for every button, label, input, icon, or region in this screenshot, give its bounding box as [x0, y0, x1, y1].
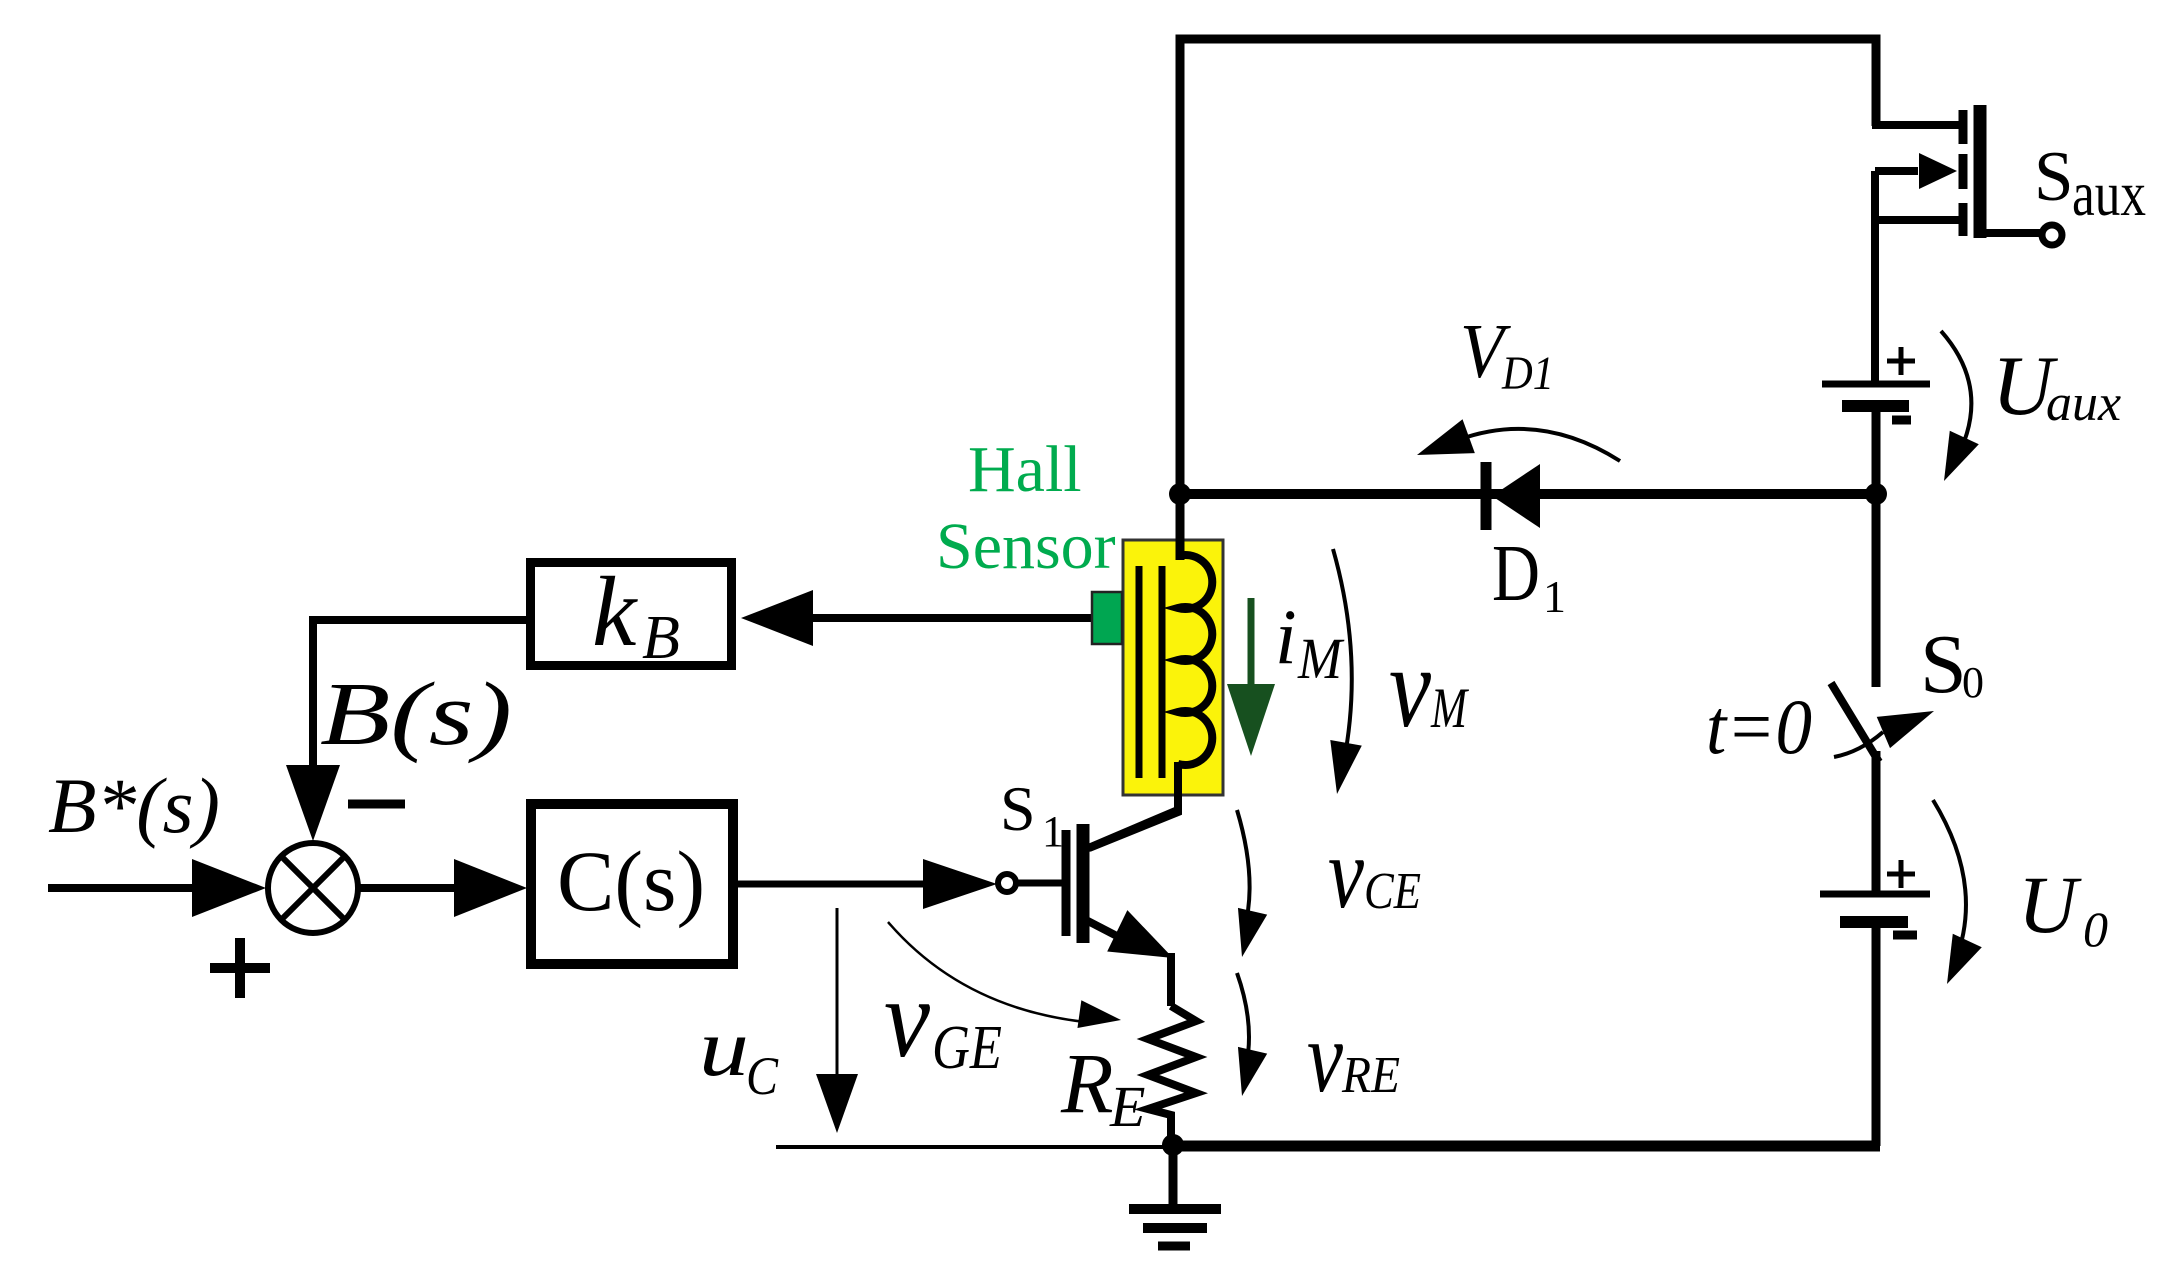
arc: U_aux voltage arrow	[1941, 331, 1971, 465]
wire: S0 lower to U0	[1872, 751, 1881, 894]
svg-text:t=0: t=0	[1706, 683, 1812, 770]
svg-text:1: 1	[1543, 571, 1566, 622]
svg-text:k: k	[592, 556, 638, 667]
ground bar 1	[1129, 1204, 1221, 1214]
svg-text:B(s): B(s)	[320, 665, 512, 764]
battery U_aux top plate	[1822, 381, 1930, 388]
svg-text:v: v	[884, 957, 930, 1081]
arrowhead: into C(s)	[454, 859, 527, 917]
svg-text:S: S	[2034, 138, 2074, 216]
arrowhead: U0 arrow	[1932, 934, 1981, 991]
svg-text:0: 0	[1962, 658, 1984, 707]
Hall sensor probe (green box)	[1092, 592, 1122, 644]
wire: U0 down to bottom rail	[1872, 920, 1881, 1146]
plus sign at summing junction	[210, 938, 270, 998]
wire: emitter to resistor R_E	[1167, 953, 1175, 1006]
wire: diode D1 branch	[1180, 489, 1876, 499]
svg-text:aux: aux	[2046, 375, 2121, 432]
svg-text:1: 1	[1042, 807, 1064, 856]
switch S0 blade	[1831, 683, 1879, 762]
inductor coil loops	[1178, 555, 1212, 765]
wire: U_aux to node	[1872, 410, 1881, 494]
ground bar 3	[1158, 1242, 1190, 1251]
svg-text:E: E	[1109, 1074, 1145, 1139]
svg-text:Hall: Hall	[968, 433, 1082, 506]
battery U0 minus sign	[1893, 931, 1917, 940]
arc: v_M voltage arrow	[1333, 549, 1352, 775]
wire: S_aux gate lead	[1984, 229, 2041, 237]
svg-text:v: v	[1328, 817, 1365, 930]
ground bar 2	[1143, 1223, 1207, 1233]
wire: B*(s) input	[48, 884, 200, 892]
arrowhead: B(s) feedback down into summing junction	[286, 765, 340, 841]
svg-text:C(s): C(s)	[557, 833, 705, 929]
diode D1 triangle	[1492, 464, 1540, 528]
block C(s) box	[531, 804, 733, 964]
wire: S_aux drain branch	[1872, 121, 1964, 129]
arrowhead: S1 emitter arrow	[1107, 910, 1183, 979]
node dot at inductor top	[1169, 483, 1191, 505]
wire: S_aux source branch	[1871, 216, 1964, 224]
transistor S1 gate bar	[1062, 830, 1071, 936]
svg-text:M: M	[1430, 677, 1469, 740]
svg-text:v: v	[1389, 624, 1431, 752]
battery U0 top plate	[1820, 891, 1930, 898]
svg-text:Sensor: Sensor	[936, 510, 1116, 583]
arrowhead: gate drive into S1	[923, 859, 997, 909]
arc: v_GE voltage arrow (thin)	[888, 922, 1085, 1022]
inductor core line 2	[1159, 566, 1166, 778]
resistor R_E zigzag	[1148, 1006, 1196, 1146]
arc: v_CE voltage arrow	[1237, 810, 1250, 930]
svg-text:v: v	[1307, 1001, 1344, 1114]
arrowhead: S_aux body arrow	[1919, 153, 1957, 189]
svg-text:0: 0	[2083, 901, 2108, 957]
ground lead	[1169, 1146, 1178, 1209]
inductor core line 1	[1136, 566, 1143, 778]
svg-text:D1: D1	[1501, 347, 1554, 400]
arrowhead: v_RE arrow	[1227, 1047, 1267, 1100]
wire: summing junction to C(s)	[358, 884, 458, 892]
wire: bottom reference line thin	[776, 1145, 1173, 1149]
node dot at emitter/bottom rail	[1162, 1134, 1184, 1156]
transistor S_aux channel dashes	[1959, 110, 1968, 236]
svg-text:RE: RE	[1341, 1047, 1400, 1104]
arrowhead: v_M arrow	[1321, 740, 1362, 797]
wire: gate circle to gate bar	[1016, 880, 1062, 887]
inductor body (yellow box)	[1123, 540, 1223, 795]
arrowhead: i_M current arrow (dark green)	[1227, 684, 1275, 756]
wire: Hall sensor output	[812, 614, 1092, 622]
wire: k_B output to summing junction	[313, 620, 526, 768]
svg-text:i: i	[1275, 593, 1297, 680]
svg-text:B*(s): B*(s)	[48, 762, 220, 849]
wire: u_C reference arrow line	[836, 908, 839, 1080]
battery U0 plus sign	[1887, 860, 1915, 888]
transistor S_aux gate bar	[1974, 105, 1987, 238]
minus sign at summing junction	[348, 800, 405, 809]
battery U_aux bottom plate	[1842, 400, 1909, 412]
arrowhead: into k_B	[741, 590, 813, 646]
wire: bottom rail thick	[1173, 1141, 1880, 1152]
terminal circle S1 gate	[998, 874, 1016, 892]
svg-text:aux: aux	[2072, 158, 2146, 229]
arrowhead: u_C arrow	[816, 1074, 858, 1133]
svg-text:CE: CE	[1364, 863, 1421, 920]
arc: S0 closing arrow	[1834, 732, 1883, 757]
arrowhead: S0 closing arrow	[1877, 695, 1941, 748]
svg-text:S: S	[1920, 618, 1967, 711]
svg-text:C: C	[746, 1046, 779, 1106]
summing junction cross	[281, 856, 345, 920]
wire: top rail loop (inductor top to S_aux drain)	[1180, 39, 1876, 560]
arrowhead: input into summing junction	[192, 859, 266, 917]
svg-text:D: D	[1492, 530, 1540, 618]
transistor S1 collector lead	[1086, 809, 1180, 849]
transistor S1 channel bar	[1077, 824, 1090, 943]
svg-text:u: u	[699, 1002, 749, 1093]
arrowhead: v_GE arrow	[1077, 1000, 1122, 1034]
summing junction circle	[268, 843, 358, 933]
wire: inductor bottom to IGBT collector	[1089, 762, 1178, 848]
diode D1 cathode bar	[1481, 462, 1492, 530]
arc: v_RE voltage arrow	[1237, 973, 1249, 1066]
battery U_aux minus sign	[1892, 416, 1911, 425]
wire: C(s) to IGBT gate	[738, 881, 924, 888]
svg-text:M: M	[1297, 626, 1344, 691]
transistor S1 emitter lead	[1086, 920, 1140, 948]
battery U0 bottom plate	[1840, 916, 1908, 928]
terminal circle S_aux gate	[2042, 225, 2062, 245]
wire: S_aux body branch and right bus down to U_aux	[1875, 171, 1918, 384]
arrowhead: U_aux arrow	[1929, 431, 1978, 488]
svg-text:U: U	[2018, 859, 2082, 950]
svg-text:S: S	[1000, 773, 1036, 844]
node dot at U_aux bottom	[1865, 483, 1887, 505]
svg-text:GE: GE	[932, 1014, 1002, 1082]
arc: V_D1 voltage arrow	[1458, 429, 1620, 461]
arrowhead: v_CE arrow	[1227, 908, 1267, 961]
arrowhead: V_D1 arrow	[1411, 419, 1475, 472]
arc: U0 voltage arrow	[1933, 800, 1966, 962]
svg-text:B: B	[642, 604, 680, 672]
block k_B box	[531, 563, 732, 666]
battery U_aux plus sign	[1887, 347, 1915, 375]
svg-text:R: R	[1060, 1035, 1114, 1131]
wire: S0 upper	[1872, 494, 1881, 687]
wire: i_M current line	[1248, 598, 1255, 684]
